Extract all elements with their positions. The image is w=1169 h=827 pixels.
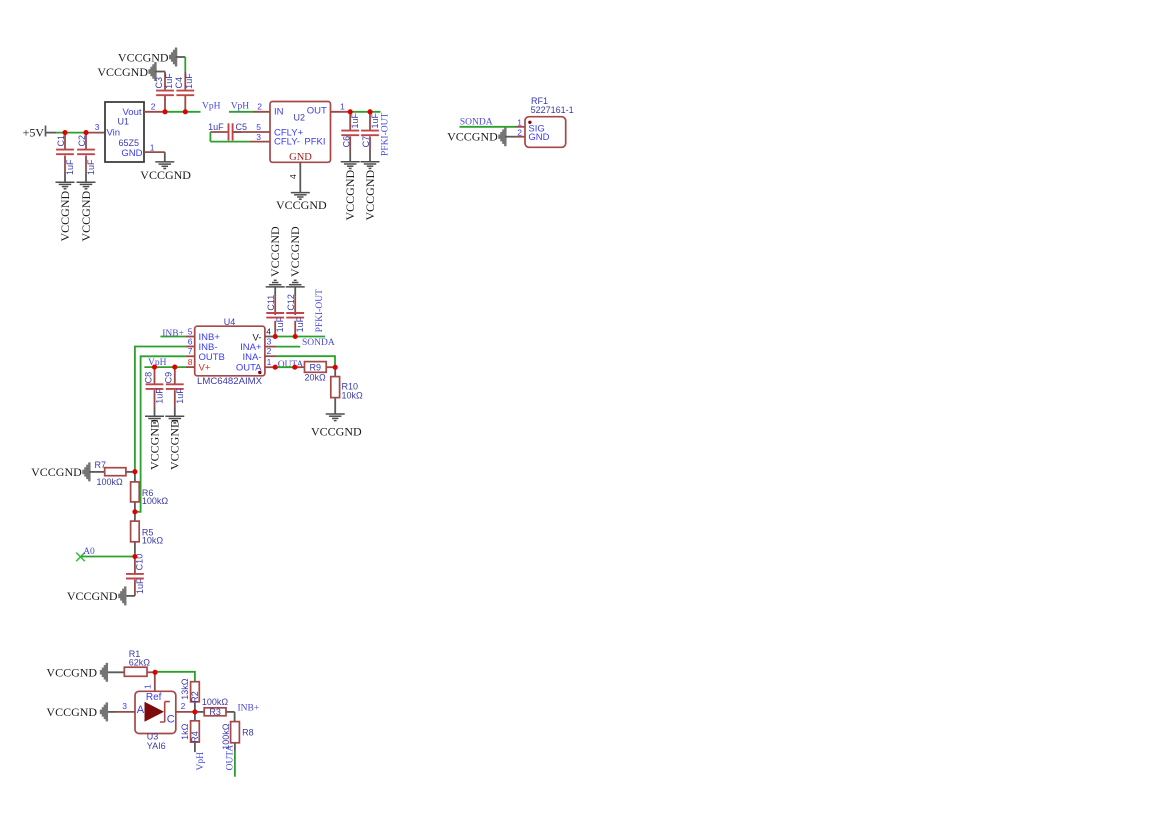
U2 pin 4 (GND) bbox=[288, 162, 301, 192]
U4 pin 5 (INB+) bbox=[185, 326, 194, 336]
wire U4 V- to PFKI-OUT bbox=[275, 336, 325, 338]
ground C2 bbox=[77, 182, 96, 189]
junction OUTA bbox=[273, 365, 278, 370]
svg-text:3: 3 bbox=[122, 701, 127, 711]
capacitor C11 plates bbox=[266, 313, 284, 318]
wire VpH to U2 IN bbox=[229, 111, 270, 113]
U1 pin 1 (GND) bbox=[144, 143, 165, 162]
power flag VCCGND (RF1) bbox=[500, 127, 506, 146]
wire flag to C3 bbox=[155, 72, 165, 90]
svg-text:1uF: 1uF bbox=[370, 112, 380, 128]
svg-text:VCCGND: VCCGND bbox=[140, 168, 191, 182]
ground C12 bbox=[286, 280, 305, 287]
capacitor C4 plates bbox=[176, 91, 194, 96]
resistor R10 10k bbox=[331, 367, 363, 413]
U1 pin 3 (Vin) bbox=[95, 122, 100, 132]
svg-text:3: 3 bbox=[95, 122, 100, 132]
svg-text:2: 2 bbox=[181, 701, 186, 711]
svg-text:VCCGND: VCCGND bbox=[168, 419, 182, 470]
svg-text:2: 2 bbox=[257, 102, 262, 112]
svg-text:1uF: 1uF bbox=[135, 578, 145, 594]
junction R1/R2/Ref bbox=[153, 670, 158, 675]
resistor R4 1k bbox=[180, 712, 200, 752]
svg-text:PFKI-OUT: PFKI-OUT bbox=[315, 289, 325, 332]
svg-text:PFKI-OUT: PFKI-OUT bbox=[381, 113, 391, 156]
svg-text:1uF: 1uF bbox=[155, 388, 165, 404]
ground U2 bbox=[291, 193, 310, 200]
junction OUT/C7 bbox=[367, 109, 372, 114]
U1 pin 2 (Vout) bbox=[144, 102, 165, 112]
junction Vout/C4 bbox=[183, 109, 188, 114]
RF1 pin 1 bbox=[515, 117, 525, 127]
wire C10 to flag bbox=[126, 595, 135, 597]
shunt reference U3 YAI6 bbox=[135, 691, 176, 751]
svg-text:U3: U3 bbox=[147, 732, 159, 742]
power flag VCCGND (C3) bbox=[150, 62, 156, 81]
svg-text:C11: C11 bbox=[266, 295, 276, 311]
net label A0 with open-end X bbox=[76, 547, 95, 561]
svg-text:+5V: +5V bbox=[23, 126, 45, 140]
svg-text:5227161-1: 5227161-1 bbox=[531, 105, 574, 115]
svg-text:C2: C2 bbox=[77, 135, 87, 147]
RF1 pin 2 bbox=[515, 127, 525, 137]
junction R5/A0/C10 bbox=[132, 554, 137, 559]
svg-text:VCCGND: VCCGND bbox=[447, 130, 498, 144]
charge pump U2 PFKI bbox=[270, 102, 331, 163]
svg-text:2: 2 bbox=[267, 346, 272, 356]
svg-text:Vin: Vin bbox=[107, 128, 121, 139]
svg-text:C6: C6 bbox=[341, 136, 351, 148]
svg-text:OUT: OUT bbox=[307, 105, 327, 116]
wire U4 INA- feedback bbox=[276, 356, 335, 367]
U4 pin 8 (V+) bbox=[185, 357, 194, 367]
capacitor C6 plates bbox=[341, 131, 359, 136]
resistor R7 100k bbox=[89, 460, 135, 487]
svg-text:VCCGND: VCCGND bbox=[67, 589, 118, 603]
svg-text:4: 4 bbox=[266, 326, 271, 336]
power flag VCCGND (R1) bbox=[101, 663, 107, 682]
wire R8 to OUTA bbox=[234, 751, 236, 777]
svg-text:OUTB: OUTB bbox=[199, 352, 225, 363]
svg-text:IN: IN bbox=[274, 106, 284, 117]
svg-text:5: 5 bbox=[188, 326, 193, 336]
svg-text:VCCGND: VCCGND bbox=[147, 419, 161, 470]
capacitor C3 plates bbox=[156, 91, 174, 96]
capacitor C9 bbox=[174, 367, 176, 416]
svg-text:1uF: 1uF bbox=[65, 159, 75, 175]
svg-text:VCCGND: VCCGND bbox=[79, 190, 93, 241]
wire SONDA to U4 pin 3 bbox=[276, 346, 300, 348]
capacitor C10 bbox=[134, 557, 136, 596]
U3 pin 2 (C) bbox=[176, 701, 195, 712]
svg-text:U2: U2 bbox=[294, 112, 306, 122]
svg-text:C8: C8 bbox=[143, 372, 153, 384]
svg-text:5: 5 bbox=[256, 122, 261, 132]
wire U4 INB- to R7/R6 node bbox=[135, 347, 185, 472]
ground C9 bbox=[165, 416, 184, 423]
svg-text:VCCGND: VCCGND bbox=[288, 226, 302, 277]
junction VpH/C8 bbox=[152, 365, 157, 370]
svg-text:V+: V+ bbox=[199, 363, 211, 374]
wire flag to C4 bbox=[176, 57, 186, 90]
ground C1 bbox=[56, 182, 75, 189]
U4 pin 4 (V-) bbox=[265, 326, 275, 336]
wire U1 Vout to VpH label bbox=[165, 111, 201, 113]
svg-text:1uF: 1uF bbox=[350, 112, 360, 128]
svg-text:R8: R8 bbox=[242, 728, 254, 738]
power symbol +5V bbox=[23, 126, 46, 140]
wire junction to U3 Ref pin 1 bbox=[143, 672, 155, 701]
svg-text:C12: C12 bbox=[286, 294, 296, 311]
svg-text:1uF: 1uF bbox=[275, 316, 285, 332]
wire R3 to R8 / INB+ node bbox=[234, 712, 236, 722]
svg-text:62kΩ: 62kΩ bbox=[129, 658, 151, 668]
svg-text:R7: R7 bbox=[95, 460, 107, 470]
svg-text:VCCGND: VCCGND bbox=[46, 705, 97, 719]
svg-text:VCCGND: VCCGND bbox=[311, 424, 362, 438]
svg-text:VCCGND: VCCGND bbox=[97, 65, 148, 79]
svg-text:VCCGND: VCCGND bbox=[268, 226, 282, 277]
svg-text:VCCGND: VCCGND bbox=[58, 190, 72, 241]
resistor R9 20k bbox=[295, 362, 335, 383]
svg-text:3: 3 bbox=[256, 132, 261, 142]
svg-text:R3: R3 bbox=[209, 707, 221, 717]
capacitor C5 bbox=[208, 122, 247, 141]
ground C6 bbox=[341, 162, 360, 169]
junction R6/R5/OUTB bbox=[132, 509, 137, 514]
wire U4 OUTA to R9 bbox=[275, 366, 295, 368]
ground C8 bbox=[145, 416, 164, 423]
svg-text:GND: GND bbox=[121, 148, 142, 159]
ground C7 bbox=[361, 162, 380, 169]
svg-text:VCCGND: VCCGND bbox=[118, 51, 169, 65]
svg-text:20kΩ: 20kΩ bbox=[304, 372, 326, 382]
svg-text:LMC6482AIMX: LMC6482AIMX bbox=[197, 376, 263, 387]
svg-text:1uF: 1uF bbox=[175, 388, 185, 404]
svg-text:3: 3 bbox=[267, 336, 272, 346]
capacitor C1 plates bbox=[56, 150, 74, 155]
junction OUTA/R9 bbox=[292, 365, 297, 370]
svg-text:INB+: INB+ bbox=[238, 703, 260, 713]
junction VpH/C9 bbox=[172, 365, 177, 370]
wire SONDA to RF1 bbox=[460, 126, 516, 128]
svg-text:100kΩ: 100kΩ bbox=[142, 496, 169, 506]
power flag VCCGND (C10) bbox=[119, 586, 125, 605]
resistor R5 10k bbox=[131, 512, 164, 557]
ground C11 bbox=[266, 280, 285, 287]
U4 pin 2 (INA-) bbox=[265, 346, 276, 356]
svg-text:65Z5: 65Z5 bbox=[119, 138, 140, 148]
ground U1 GND bbox=[155, 162, 174, 169]
svg-text:1uF: 1uF bbox=[295, 316, 305, 332]
capacitor C2 bbox=[85, 133, 87, 182]
capacitor C8 bbox=[154, 367, 156, 416]
svg-text:C3: C3 bbox=[154, 77, 164, 89]
svg-text:Ref: Ref bbox=[146, 692, 162, 703]
resistor R1 62k bbox=[107, 649, 155, 677]
wire C5 to CFLY- bbox=[210, 132, 250, 142]
svg-text:U1: U1 bbox=[118, 117, 130, 127]
junction +5V/C1 bbox=[62, 130, 67, 135]
capacitor C2 plates bbox=[77, 150, 95, 155]
wire R1 to R2 bbox=[155, 672, 195, 682]
regulator U1 65Z5 bbox=[105, 102, 144, 162]
capacitor C7 plates bbox=[361, 131, 379, 136]
svg-text:YAI6: YAI6 bbox=[147, 741, 166, 751]
svg-text:VCCGND: VCCGND bbox=[363, 169, 377, 220]
capacitor C10 plates bbox=[126, 574, 144, 579]
capacitor C6 bbox=[349, 112, 351, 162]
svg-text:2: 2 bbox=[151, 102, 156, 112]
U2 pin 5 (CFLY+) bbox=[233, 122, 270, 132]
power flag VCCGND (U3) bbox=[101, 702, 107, 721]
svg-text:VCCGND: VCCGND bbox=[31, 465, 82, 479]
U4 pin 3 (INA+) bbox=[265, 336, 276, 346]
svg-text:R9: R9 bbox=[310, 363, 322, 373]
capacitor C9 plates bbox=[166, 384, 184, 389]
resistor R2 13k bbox=[180, 678, 200, 712]
wire +5V to U1 Vin bbox=[46, 132, 106, 134]
svg-text:R2: R2 bbox=[190, 691, 200, 703]
junction OUT/C6 bbox=[348, 109, 353, 114]
U4 pin 7 (OUTB) bbox=[185, 346, 194, 356]
junction Vout/C3 bbox=[162, 109, 167, 114]
svg-text:C5: C5 bbox=[236, 122, 248, 132]
junction U3 cathode node bbox=[192, 709, 197, 714]
svg-text:OUTA: OUTA bbox=[278, 360, 304, 370]
svg-text:100kΩ: 100kΩ bbox=[97, 477, 124, 487]
capacitor C1 bbox=[64, 133, 66, 182]
wire A0 to R5/C10 bbox=[81, 556, 135, 558]
svg-text:C4: C4 bbox=[174, 77, 184, 89]
junction V-/C12 bbox=[293, 334, 298, 339]
svg-text:10kΩ: 10kΩ bbox=[142, 535, 164, 545]
power flag VCCGND (C4) bbox=[170, 48, 176, 67]
resistor R3 100k bbox=[195, 697, 235, 717]
svg-text:1uF: 1uF bbox=[208, 122, 224, 132]
U3 pin 3 (A) bbox=[107, 701, 135, 712]
U4 pin 1 (OUTA) bbox=[265, 357, 275, 367]
svg-text:1: 1 bbox=[517, 117, 522, 127]
wire U2 OUT to PFKI-OUT bbox=[350, 111, 380, 113]
svg-text:6: 6 bbox=[188, 336, 193, 346]
svg-text:1uF: 1uF bbox=[86, 159, 96, 175]
svg-text:C9: C9 bbox=[164, 372, 174, 384]
svg-text:VCCGND: VCCGND bbox=[343, 169, 357, 220]
svg-text:SONDA: SONDA bbox=[302, 338, 335, 348]
svg-text:U4: U4 bbox=[224, 317, 236, 327]
svg-text:4: 4 bbox=[288, 174, 298, 179]
svg-text:1: 1 bbox=[150, 143, 155, 153]
svg-text:OUTA: OUTA bbox=[226, 745, 236, 771]
svg-text:VpH: VpH bbox=[202, 102, 221, 112]
svg-text:VCCGND: VCCGND bbox=[276, 198, 327, 212]
svg-text:A: A bbox=[137, 704, 145, 716]
svg-text:R4: R4 bbox=[190, 731, 200, 743]
power flag VCCGND (R7) bbox=[84, 462, 90, 481]
capacitor C7 bbox=[369, 112, 371, 162]
U2 pin 3 (CFLY-) bbox=[250, 132, 270, 142]
U4 pin 6 (INB-) bbox=[185, 336, 194, 346]
svg-text:1: 1 bbox=[340, 102, 345, 112]
svg-text:2: 2 bbox=[517, 127, 522, 137]
resistor R8 100k bbox=[221, 722, 253, 751]
svg-text:1: 1 bbox=[143, 684, 153, 689]
svg-text:C7: C7 bbox=[361, 136, 371, 148]
svg-text:VCCGND: VCCGND bbox=[46, 666, 97, 680]
svg-text:C: C bbox=[167, 714, 175, 726]
svg-text:VpH: VpH bbox=[231, 102, 250, 112]
svg-text:10kΩ: 10kΩ bbox=[342, 390, 364, 400]
junction +5V/C2 bbox=[83, 130, 88, 135]
svg-text:INA-: INA- bbox=[243, 352, 262, 363]
svg-text:1: 1 bbox=[267, 357, 272, 367]
wire VpH to U4 pin 8 bbox=[144, 366, 185, 368]
svg-text:8: 8 bbox=[188, 357, 193, 367]
capacitor C3 bbox=[164, 96, 166, 112]
capacitor C11 bbox=[274, 287, 276, 336]
wire INB+ to U4 pin 5 bbox=[160, 336, 185, 338]
ground R10 bbox=[326, 414, 345, 421]
svg-text:1uF: 1uF bbox=[164, 73, 174, 89]
svg-text:7: 7 bbox=[188, 346, 193, 356]
capacitor C4 bbox=[184, 96, 186, 112]
capacitor C12 bbox=[294, 287, 296, 336]
wire U4 OUTB to R6/R5 node bbox=[135, 356, 185, 512]
svg-text:C1: C1 bbox=[56, 135, 66, 147]
resistor R6 100k bbox=[131, 472, 169, 512]
U2 pin 1 (OUT) bbox=[331, 102, 351, 112]
junction R7/R6/INB- bbox=[132, 469, 137, 474]
junction R9/R10 bbox=[333, 365, 338, 370]
svg-text:CFLY-: CFLY- bbox=[274, 137, 300, 148]
svg-text:VpH: VpH bbox=[196, 752, 206, 771]
connector RF1 5227161-1 bbox=[525, 96, 574, 147]
wire flag to RF1 pin 2 bbox=[505, 136, 515, 138]
svg-text:GND: GND bbox=[528, 132, 549, 143]
svg-text:1kΩ: 1kΩ bbox=[180, 723, 190, 740]
svg-text:13kΩ: 13kΩ bbox=[180, 678, 190, 700]
svg-text:100kΩ: 100kΩ bbox=[202, 697, 229, 707]
svg-text:GND: GND bbox=[289, 152, 312, 163]
op-amp U4 LMC6482AIMX bbox=[195, 317, 265, 387]
capacitor C8 plates bbox=[146, 384, 164, 389]
junction V-/C11 bbox=[273, 334, 278, 339]
svg-text:1uF: 1uF bbox=[184, 73, 194, 89]
svg-text:PFKI: PFKI bbox=[304, 137, 325, 148]
capacitor C12 plates bbox=[286, 313, 304, 318]
